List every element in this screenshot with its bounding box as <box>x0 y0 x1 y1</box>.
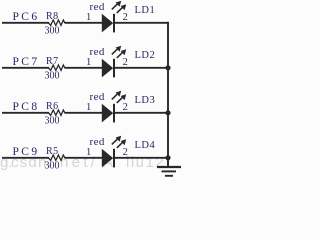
svg-text:red: red <box>90 91 105 103</box>
wire <box>65 157 103 159</box>
wire <box>114 157 169 159</box>
svg-text:R8: R8 <box>46 11 59 22</box>
junction (LD2 row) <box>165 65 170 70</box>
wire <box>2 22 49 24</box>
svg-text:LD3: LD3 <box>135 95 156 106</box>
junction (LD3 row) <box>165 110 170 115</box>
svg-text:1: 1 <box>86 57 91 68</box>
ground <box>157 167 181 176</box>
resistor R7 <box>49 65 65 70</box>
resistor R6 <box>49 110 65 115</box>
svg-text:2: 2 <box>123 102 128 113</box>
wire <box>114 22 169 24</box>
wire <box>114 112 169 114</box>
svg-text:300: 300 <box>45 71 60 82</box>
resistor R5 <box>49 155 65 160</box>
svg-text:2: 2 <box>123 57 128 68</box>
wire <box>65 67 103 69</box>
wire <box>65 112 103 114</box>
wire <box>114 67 169 69</box>
svg-text:red: red <box>90 136 105 148</box>
svg-text:LD1: LD1 <box>135 5 156 16</box>
svg-text:PC6: PC6 <box>13 11 40 23</box>
svg-text:300: 300 <box>45 161 60 172</box>
wire <box>2 112 49 114</box>
svg-text:R5: R5 <box>46 146 59 157</box>
svg-text:1: 1 <box>86 147 91 158</box>
svg-text:LD4: LD4 <box>135 140 156 151</box>
LED LD1 <box>102 1 126 33</box>
LED LD4 <box>102 136 126 168</box>
wire <box>2 157 49 159</box>
LED LD3 <box>102 91 126 123</box>
wire (cathode bus) <box>167 22 169 167</box>
svg-text:300: 300 <box>45 26 60 37</box>
svg-text:R6: R6 <box>46 101 59 112</box>
junction (LD4 row) <box>165 155 170 160</box>
wire <box>65 22 103 24</box>
svg-text:red: red <box>90 46 105 58</box>
LED LD2 <box>102 46 126 78</box>
resistor R8 <box>49 20 65 25</box>
svg-text:2: 2 <box>123 12 128 23</box>
svg-text:1: 1 <box>86 102 91 113</box>
svg-text:PC7: PC7 <box>13 56 40 68</box>
svg-text:R7: R7 <box>46 56 59 67</box>
svg-text:PC9: PC9 <box>13 146 40 158</box>
svg-text:LD2: LD2 <box>135 50 156 61</box>
svg-text:1: 1 <box>86 12 91 23</box>
wire <box>2 67 49 69</box>
svg-text:300: 300 <box>45 116 60 127</box>
svg-text:2: 2 <box>123 147 128 158</box>
watermark <box>0 155 13 170</box>
svg-text:PC8: PC8 <box>13 101 40 113</box>
svg-text:red: red <box>90 1 105 13</box>
